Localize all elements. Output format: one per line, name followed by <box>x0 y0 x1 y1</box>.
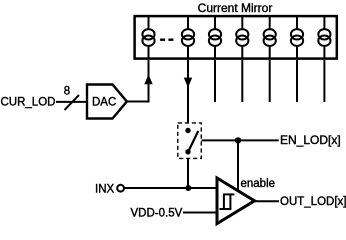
stub wire from I6 <box>296 60 298 102</box>
node junction EN <box>235 137 241 143</box>
arrow down to switch <box>184 78 192 88</box>
current source I6 <box>291 17 303 59</box>
wire CUR_LOD to DAC <box>56 101 86 103</box>
wire DAC to current mirror <box>127 60 149 102</box>
stub wire from I3 <box>214 60 216 102</box>
wire switch to EN node <box>202 139 279 141</box>
switch S1 dashed box <box>178 123 202 158</box>
svg-text:INX: INX <box>95 183 115 195</box>
wire comparator output <box>255 200 280 202</box>
comparator U2 <box>217 178 255 224</box>
stub wire from I5 <box>269 60 271 102</box>
switch S1 <box>185 128 198 155</box>
arrow up into mirror <box>144 74 152 84</box>
current mirror box <box>135 16 337 59</box>
current source I5 <box>264 17 276 59</box>
wire VDD-0.5V to comparator <box>183 212 217 214</box>
svg-text:CUR_LOD: CUR_LOD <box>1 96 56 108</box>
current source I4 <box>236 17 248 59</box>
wire enable (EN node to comparator) <box>237 140 239 191</box>
svg-text:Current Mirror: Current Mirror <box>198 1 273 15</box>
stub wire from I7 <box>323 60 325 102</box>
svg-text:VDD-0.5V: VDD-0.5V <box>131 208 183 220</box>
svg-text:enable: enable <box>241 178 276 190</box>
svg-text:OUT_LOD[x]: OUT_LOD[x] <box>280 196 346 208</box>
DAC U1 <box>87 85 127 119</box>
INX input terminal <box>117 185 124 192</box>
stub wire from I4 <box>241 60 243 102</box>
ellipsis dashes <box>160 39 173 41</box>
wire mirror to switch <box>187 60 189 123</box>
wire INX to comparator <box>125 187 218 189</box>
current source I7 <box>318 17 330 59</box>
wire switch to INX node <box>187 158 189 188</box>
current source I1 <box>142 17 154 59</box>
svg-text:8: 8 <box>64 85 70 97</box>
current source I3 <box>209 17 221 59</box>
svg-text:DAC: DAC <box>92 96 116 108</box>
bus width slash <box>65 95 80 110</box>
current source I2 <box>182 17 194 59</box>
svg-text:EN_LOD[x]: EN_LOD[x] <box>280 133 341 147</box>
node junction INX <box>185 185 191 191</box>
hysteresis symbol <box>219 194 234 209</box>
